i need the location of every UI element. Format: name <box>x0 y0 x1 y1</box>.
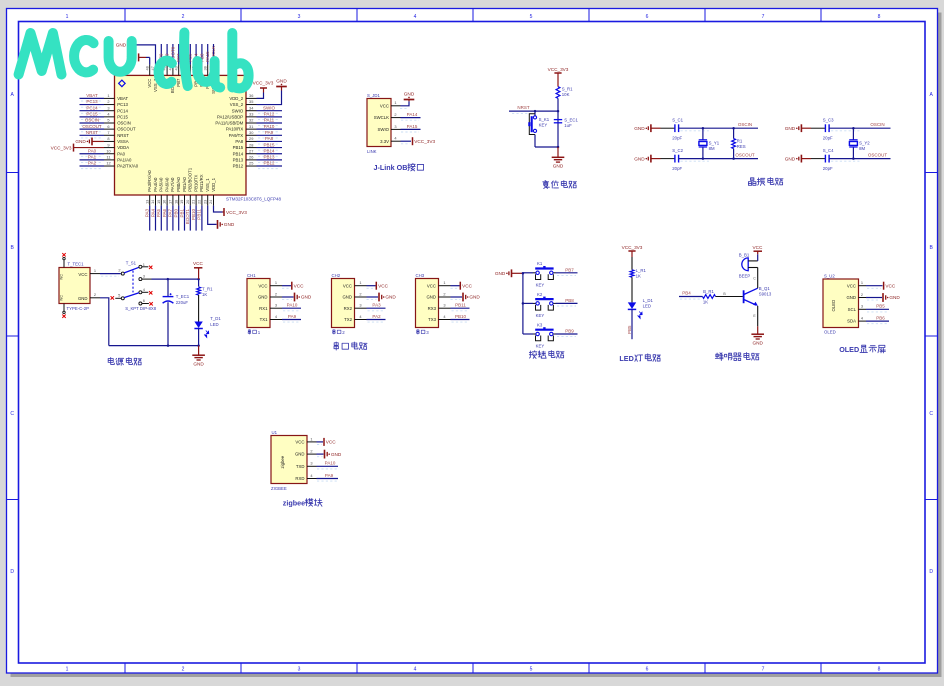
svg-text:S9013: S9013 <box>759 291 772 296</box>
power port VCC_3V3 at MCU right top <box>260 87 267 89</box>
MCU pin36 VDD_2 wire to VCC_3V3 <box>257 93 264 99</box>
CH3 wire pin2 to GND <box>451 296 463 298</box>
svg-text:8: 8 <box>107 136 109 141</box>
wire net PA3 (bottom) <box>149 206 151 231</box>
MCU bottom pin 13 PA3/RX/A0 <box>149 195 151 206</box>
svg-text:PA12: PA12 <box>264 112 275 117</box>
CH3 wire net PB10 <box>451 319 470 321</box>
wire net BOOT1 (bottom) <box>189 206 191 231</box>
svg-text:1: 1 <box>275 280 277 285</box>
svg-text:PA10: PA10 <box>325 461 336 466</box>
svg-text:GND: GND <box>78 296 88 301</box>
svg-text:PA4/A0: PA4/A0 <box>153 177 158 192</box>
MCU pin35 VSS_2 wire to GND <box>257 91 282 105</box>
MCU right pin 31 PA10/RX <box>246 128 257 130</box>
wire net SWIO <box>257 110 283 112</box>
wire net PC14 <box>80 110 105 112</box>
capacitor S_C2 20pF <box>674 155 676 163</box>
transistor B_Q1 S9013 <box>743 290 745 303</box>
svg-text:29: 29 <box>249 136 253 141</box>
label serial port 3 <box>417 330 420 335</box>
svg-text:1: 1 <box>359 280 361 285</box>
button bus wire <box>522 273 524 334</box>
ground power circuit <box>198 346 200 356</box>
svg-text:20pF: 20pF <box>672 166 682 171</box>
caption power supply circuit <box>108 358 114 365</box>
svg-text:K1: K1 <box>537 261 543 266</box>
svg-text:3: 3 <box>298 667 301 673</box>
svg-text:1: 1 <box>94 268 96 273</box>
power port VCC at CH2 <box>375 282 377 290</box>
power port VCC at CH1 <box>291 282 293 290</box>
resistor L_R1 1K <box>630 270 634 277</box>
power port VCC_3V3 reset circuit <box>554 72 561 74</box>
CH1 wire net PA10 <box>282 307 301 309</box>
svg-text:PA6: PA6 <box>162 209 167 218</box>
caption serial port circuit <box>334 342 338 350</box>
svg-text:GND: GND <box>331 452 342 457</box>
OLED wire pin2 to GND <box>866 297 882 299</box>
wire net BOOT0 (top) <box>172 44 174 65</box>
svg-text:PA14: PA14 <box>407 112 418 117</box>
svg-text:1: 1 <box>394 100 396 105</box>
svg-text:35: 35 <box>249 99 253 104</box>
power ground at zigbee <box>324 450 326 459</box>
svg-text:PA3: PA3 <box>372 303 381 308</box>
svg-text:GND: GND <box>634 126 645 131</box>
MCU left pin 5 OSCIN <box>104 122 115 124</box>
svg-text:GND: GND <box>116 43 127 48</box>
svg-text:OSCIN: OSCIN <box>117 121 131 126</box>
MCU right pin 34 SWIO <box>246 110 257 112</box>
OLED pin 3 SCL <box>859 308 867 310</box>
svg-text:OSCIN: OSCIN <box>738 122 752 127</box>
svg-text:RX2: RX2 <box>344 306 353 311</box>
svg-text:OLED: OLED <box>839 345 859 354</box>
power ground above J-Link <box>404 99 415 101</box>
svg-text:GND: GND <box>193 362 204 367</box>
wire net PA5 (bottom) <box>160 206 162 231</box>
svg-text:PB10: PB10 <box>455 314 467 319</box>
svg-text:T_R1: T_R1 <box>202 286 213 291</box>
svg-text:J-Link OB: J-Link OB <box>374 163 408 172</box>
J-Link pin 1 VCC <box>391 105 401 107</box>
MCU right pin 25 PB12 <box>246 165 257 167</box>
pushbutton K2 <box>523 302 533 304</box>
CH3 pin 1 VCC <box>439 285 451 287</box>
svg-text:GND: GND <box>301 295 312 300</box>
svg-text:VCC_3V3: VCC_3V3 <box>226 210 247 215</box>
svg-text:PB1: PB1 <box>179 209 184 218</box>
wire net PB5 (top) <box>189 44 191 65</box>
svg-text:OSCOUT: OSCOUT <box>868 152 888 157</box>
svg-text:OSCIN: OSCIN <box>85 118 99 123</box>
svg-text:PA8: PA8 <box>235 139 243 144</box>
wire net PA4 (bottom) <box>155 206 157 231</box>
wire net PB8 (top) <box>166 44 168 65</box>
svg-text:VCC: VCC <box>193 261 204 266</box>
wire to capacitor S_C3 <box>811 127 825 129</box>
wire net PB0 (bottom) <box>178 206 180 231</box>
wire net PA15 <box>401 128 421 130</box>
svg-text:10K: 10K <box>562 92 570 97</box>
svg-text:OSCOUT: OSCOUT <box>82 124 102 129</box>
wire net PB9 <box>556 333 578 335</box>
svg-text:K2: K2 <box>537 292 543 297</box>
connector S_JD1 J-Link body <box>367 99 391 147</box>
svg-text:C: C <box>929 411 933 417</box>
svg-text:22: 22 <box>197 200 202 204</box>
svg-text:1: 1 <box>66 667 69 673</box>
svg-text:PB2/BOOT1: PB2/BOOT1 <box>188 167 193 191</box>
CH1 wire pin1 to VCC <box>282 285 291 287</box>
svg-text:PA8: PA8 <box>265 136 274 141</box>
power port VCC_3V3 at J-Link <box>412 137 414 145</box>
wire net PA0 <box>80 153 105 155</box>
MCU bottom pin 14 PA4/A0 <box>155 195 157 206</box>
svg-text:VCC: VCC <box>326 440 337 445</box>
svg-text:NC: NC <box>60 274 64 280</box>
MCU top pin 46 PB9 <box>160 65 162 76</box>
svg-text:PA0: PA0 <box>117 151 125 156</box>
MCU pin9 VDDA VCC_3V3 power port <box>74 147 105 149</box>
connector S_U2 OLED body <box>823 279 859 328</box>
svg-text:8: 8 <box>878 667 881 673</box>
MCU bottom pin 19 PB1/A0 <box>184 195 186 206</box>
CH2 wire pin1 to VCC <box>367 285 376 287</box>
wire net OSCOUT <box>80 128 105 130</box>
MCU right pin 27 PB14 <box>246 153 257 155</box>
svg-text:VCC: VCC <box>78 272 87 277</box>
svg-text:VDD_2: VDD_2 <box>229 96 243 101</box>
CH1 wire pin2 to GND <box>282 296 294 298</box>
MCU left pin 8 VSSA <box>104 140 115 142</box>
svg-text:D: D <box>929 569 933 575</box>
svg-text:5: 5 <box>530 14 533 20</box>
svg-text:GND: GND <box>785 126 796 131</box>
svg-text:S_C2: S_C2 <box>672 148 683 153</box>
CH2 wire net PA2 <box>367 319 386 321</box>
svg-text:VCC: VCC <box>380 103 389 108</box>
svg-text:33: 33 <box>249 112 253 117</box>
MCU right pin 32 PA11/USB/DM <box>246 122 257 124</box>
svg-text:3: 3 <box>143 274 145 279</box>
wire net PB11 (bottom) <box>201 206 203 231</box>
svg-text:C: C <box>10 411 14 417</box>
wire net PB7 <box>556 272 578 274</box>
svg-text:2: 2 <box>118 267 120 272</box>
crystal S_Y1 8M <box>702 128 704 139</box>
power port VCC at CH3 <box>459 282 461 290</box>
wire net PA8 <box>257 140 283 142</box>
CH3 pin 4 TX3 <box>439 319 451 321</box>
CH1 wire net PA9 <box>282 319 301 321</box>
svg-text:PA0: PA0 <box>88 148 97 153</box>
resistor R1 RES <box>733 128 735 138</box>
svg-text:20pF: 20pF <box>823 166 833 171</box>
svg-text:KEY: KEY <box>539 122 548 127</box>
svg-text:STM32F103C8T6_LQFP48: STM32F103C8T6_LQFP48 <box>226 197 282 202</box>
label serial port 1 <box>248 330 251 335</box>
svg-text:PB10/TX: PB10/TX <box>193 174 198 191</box>
CH3 wire pin1 to VCC <box>451 285 460 287</box>
caption button circuit <box>529 351 537 359</box>
wire net OSCIN <box>80 122 105 124</box>
CH2 wire pin2 to GND <box>367 296 379 298</box>
svg-text:3: 3 <box>861 304 863 309</box>
svg-text:GND: GND <box>495 271 506 276</box>
caption buzzer circuit <box>715 353 723 361</box>
svg-text:3: 3 <box>107 105 109 110</box>
svg-text:6: 6 <box>646 667 649 673</box>
MCU bottom pin 22 PB11/RX <box>201 195 203 206</box>
wire net PA10 <box>257 128 283 130</box>
MCU bottom pin 21 PB10/TX <box>195 195 197 206</box>
svg-text:D: D <box>10 569 14 575</box>
zigbee pin 3 TXD <box>307 465 317 467</box>
svg-text:PB10: PB10 <box>191 209 196 221</box>
MCU top pin 42 PB6 <box>184 65 186 76</box>
svg-text:27: 27 <box>249 148 253 153</box>
svg-text:S_K1: S_K1 <box>539 117 550 122</box>
svg-text:PC15: PC15 <box>86 112 98 117</box>
MCU right pin 33 PA12/USBDP <box>246 116 257 118</box>
svg-text:19: 19 <box>179 200 184 204</box>
svg-text:PB5: PB5 <box>627 325 632 334</box>
pushbutton K1 <box>523 272 533 274</box>
svg-text:VCC: VCC <box>378 283 389 288</box>
svg-text:NRST: NRST <box>86 130 99 135</box>
capacitor S_C3 20pF <box>824 124 826 132</box>
wire net PB4 <box>679 296 703 298</box>
switch T_S1 pole 6 <box>139 302 142 305</box>
wire net PB8 <box>556 302 578 304</box>
wire to capacitor S_C2 <box>661 158 675 160</box>
svg-text:VDD_1: VDD_1 <box>211 177 216 191</box>
svg-text:RX1: RX1 <box>259 306 268 311</box>
wire net PB1 (bottom) <box>184 206 186 231</box>
svg-text:CH2: CH2 <box>332 273 341 278</box>
pushbutton K3 <box>523 333 533 335</box>
svg-text:zigbee: zigbee <box>280 455 285 468</box>
svg-text:15: 15 <box>156 200 161 204</box>
CH1 pin 1 VCC <box>270 285 282 287</box>
svg-text:VCC: VCC <box>294 283 305 288</box>
svg-text:PA7: PA7 <box>168 209 173 218</box>
wire switch pole3 to VCC node <box>152 278 199 280</box>
svg-text:20pF: 20pF <box>823 135 833 140</box>
svg-text:SWCLK: SWCLK <box>374 115 389 120</box>
svg-text:RES: RES <box>737 144 746 149</box>
svg-text:S_Y2: S_Y2 <box>859 141 870 146</box>
wire net PB3 (top) <box>201 44 203 65</box>
wire net NRST <box>80 134 105 136</box>
svg-text:PC13: PC13 <box>86 99 98 104</box>
CH1 pin 2 GND <box>270 296 282 298</box>
resistor T_R1 1K <box>198 279 200 286</box>
MCU left pin 3 PC14 <box>104 110 115 112</box>
wire J-Link pin4 to VCC_3V3 <box>401 140 412 142</box>
MCU right pin 28 PB15 <box>246 147 257 149</box>
switch T_S1 pole 4 <box>139 291 142 294</box>
wire LED to rail <box>198 329 200 346</box>
svg-text:L_D1: L_D1 <box>643 298 654 303</box>
svg-text:3: 3 <box>298 14 301 20</box>
wire net PA9 <box>257 134 283 136</box>
svg-text:VCC_3V3: VCC_3V3 <box>548 67 569 72</box>
CH2 wire net PA3 <box>367 307 386 309</box>
svg-text:PB14: PB14 <box>233 151 244 156</box>
svg-text:2: 2 <box>182 667 185 673</box>
svg-text:VCC: VCC <box>295 440 304 445</box>
svg-text:SCL: SCL <box>848 307 857 312</box>
power port VCC_3V3 LED circuit <box>628 250 635 252</box>
wire net PB15 <box>257 147 283 149</box>
svg-text:2: 2 <box>443 291 445 296</box>
svg-text:1: 1 <box>443 280 445 285</box>
svg-text:7: 7 <box>762 667 765 673</box>
pushbutton S_K1 <box>534 111 536 116</box>
resistor S_R1 <box>556 87 560 99</box>
svg-text:4: 4 <box>414 14 417 20</box>
switch T_S1 pole 3 <box>139 278 142 281</box>
svg-text:PA11: PA11 <box>264 118 275 123</box>
LED T_D1 <box>194 322 202 329</box>
CH2 pin 4 TX2 <box>355 319 367 321</box>
svg-text:CH1: CH1 <box>247 273 256 278</box>
svg-text:VCC: VCC <box>147 79 152 88</box>
wire net PA15 (top) <box>207 44 209 65</box>
connector CH2 body <box>332 279 355 328</box>
svg-text:VCC: VCC <box>847 283 856 288</box>
J-Link pin 2 SWCLK <box>391 117 401 119</box>
svg-text:T_EC1: T_EC1 <box>176 294 190 299</box>
svg-text:PA2/TX/A0: PA2/TX/A0 <box>117 164 139 169</box>
svg-text:SWIO: SWIO <box>232 108 244 113</box>
connector T_TEC1 TYPE-C body <box>59 268 90 304</box>
wire J-Link pin1 to GND <box>401 101 410 106</box>
svg-text:8M: 8M <box>709 146 715 151</box>
svg-text:7: 7 <box>762 14 765 20</box>
wire net PA2 <box>80 165 105 167</box>
wire TEC1 VCC to switch <box>100 273 121 275</box>
svg-text:S_C3: S_C3 <box>823 118 834 123</box>
zigbee pin 2 GND <box>307 453 317 455</box>
svg-text:PC15: PC15 <box>117 114 128 119</box>
wire S_C4 to net OSCOUT <box>829 158 853 160</box>
wire emitter <box>757 306 759 326</box>
svg-text:PC14: PC14 <box>86 105 98 110</box>
MCU left pin 4 PC15 <box>104 116 115 118</box>
svg-text:LED: LED <box>210 322 218 327</box>
svg-text:PB12: PB12 <box>263 161 275 166</box>
svg-text:PB13: PB13 <box>233 157 244 162</box>
CH1 pin 3 RX1 <box>270 307 282 309</box>
svg-text:RXD: RXD <box>295 476 304 481</box>
wire TEC1 GND down to rail <box>100 298 109 346</box>
svg-text:16: 16 <box>162 200 167 204</box>
svg-text:PA1: PA1 <box>88 155 97 160</box>
svg-text:PA1/A0: PA1/A0 <box>117 157 132 162</box>
svg-text:BEEP: BEEP <box>739 273 751 278</box>
MCU top pin 45 PB8 <box>166 65 168 76</box>
svg-text:2: 2 <box>182 14 185 20</box>
wire S_R1 to node <box>557 98 559 147</box>
svg-text:TX3: TX3 <box>428 317 436 322</box>
svg-text:S_C1: S_C1 <box>672 118 683 123</box>
svg-text:4: 4 <box>414 667 417 673</box>
MCU pin24 VDD_1 wire to VCC_3V3 <box>214 206 223 212</box>
svg-text:PA10: PA10 <box>264 124 275 129</box>
connector U1 zigbee body <box>271 436 307 484</box>
svg-text:GND: GND <box>75 139 86 144</box>
MCU origin diamond marker <box>119 80 126 87</box>
svg-text:NC: NC <box>60 295 64 301</box>
MCU top pin 38 PA15 <box>207 65 209 76</box>
svg-text:23: 23 <box>202 200 207 204</box>
svg-text:VCC: VCC <box>343 283 352 288</box>
CH2 pin 3 RX2 <box>355 307 367 309</box>
label serial port 2 <box>333 330 336 335</box>
svg-text:K3: K3 <box>537 322 543 327</box>
svg-text:OSCIN: OSCIN <box>870 122 884 127</box>
svg-text:B_B1: B_B1 <box>739 252 750 257</box>
svg-text:GND: GND <box>846 295 856 300</box>
MCU left pin 12 PA2/TX/A0 <box>104 165 115 167</box>
svg-text:VCC: VCC <box>427 283 436 288</box>
svg-text:B_R1: B_R1 <box>703 289 714 294</box>
svg-text:3: 3 <box>359 303 361 308</box>
wire net PB14 <box>257 153 283 155</box>
svg-text:1: 1 <box>310 436 312 441</box>
OLED wire net PB5 <box>866 308 889 310</box>
svg-text:PB11: PB11 <box>455 303 466 308</box>
MCU left pin 9 VDDA <box>104 147 115 149</box>
svg-text:5: 5 <box>530 667 533 673</box>
svg-text:2: 2 <box>310 449 312 454</box>
wire net PB7 (top) <box>178 44 180 65</box>
svg-text:PB14: PB14 <box>263 148 275 153</box>
svg-text:SWIO: SWIO <box>263 105 275 110</box>
wire S_C2 to net OSCOUT <box>679 158 703 160</box>
wire net PB10 (bottom) <box>195 206 197 231</box>
svg-text:TX2: TX2 <box>344 317 352 322</box>
zigbee pin 1 VCC <box>307 441 317 443</box>
switch T_S1 pole 5 <box>121 297 124 300</box>
svg-text:2: 2 <box>861 292 863 297</box>
connector CH1 body <box>247 279 270 328</box>
svg-text:NRST: NRST <box>117 133 129 138</box>
svg-text:PA5/A0: PA5/A0 <box>159 177 164 192</box>
svg-text:GND: GND <box>553 164 564 169</box>
wire net PA14 <box>401 117 421 119</box>
svg-text:PA15: PA15 <box>407 124 418 129</box>
svg-text:GND: GND <box>752 341 763 346</box>
svg-text:TX1: TX1 <box>260 317 268 322</box>
svg-text:25: 25 <box>249 161 253 166</box>
crystal S_Y2 8M <box>852 128 854 139</box>
wire net PB12 <box>257 165 283 167</box>
svg-text:PA5: PA5 <box>156 209 161 218</box>
svg-text:1K: 1K <box>703 300 708 305</box>
MCU top pin 47 VSS_3 <box>155 65 157 76</box>
svg-text:VCC_3V3: VCC_3V3 <box>51 145 72 150</box>
capacitor S_EC1 <box>554 119 562 121</box>
svg-text:R1: R1 <box>737 138 743 143</box>
svg-text:VCC: VCC <box>752 245 763 250</box>
svg-text:TYPE-C-2P: TYPE-C-2P <box>67 306 90 311</box>
wire net PA6 (bottom) <box>166 206 168 231</box>
